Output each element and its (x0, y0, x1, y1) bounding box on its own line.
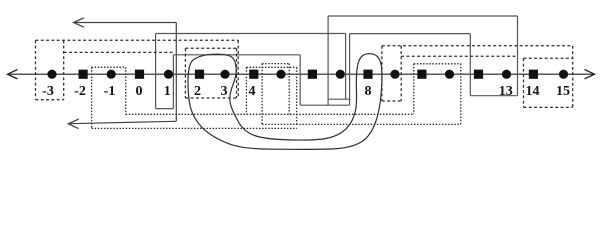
solid box T2 top edge (350, 33, 471, 35)
dashed box N23 top edge (185, 47, 236, 49)
number line (8, 73, 594, 75)
dotted long line Ldot1 (126, 113, 414, 115)
circle marker 5 (276, 70, 285, 79)
square marker 0 (135, 70, 144, 79)
svg-text:2: 2 (194, 84, 201, 99)
solid box R7 bottom edge (156, 108, 174, 110)
dashed box N-3 left edge (35, 40, 37, 100)
dashed box N9 right edge (400, 46, 402, 101)
solid box T1 left edge (327, 16, 329, 105)
square marker 12 (474, 70, 483, 79)
solid box B top edge (173, 54, 300, 56)
solid box T1 top edge (328, 15, 517, 17)
circle marker 13 (502, 70, 511, 79)
dashed box N23 bottom edge (185, 97, 236, 99)
dotted box inner45 top edge (262, 63, 289, 65)
svg-text:-2: -2 (74, 84, 86, 99)
dotted box D1 right edge (125, 67, 127, 114)
dashed box N-3 right edge (63, 40, 65, 100)
dashed box B2 top edge (64, 51, 174, 53)
dotted box D1 top edge (92, 66, 126, 68)
dashed box N1415 bottom edge (524, 106, 573, 108)
dashed box B1 right edge (237, 40, 239, 97)
top-left arrow (75, 22, 177, 24)
dotted box D1 left edge (91, 67, 93, 128)
circle marker 15 (559, 70, 568, 79)
dotted box 1011 left edge (413, 64, 415, 115)
dotted box inner45 left edge (261, 64, 263, 125)
svg-text:-1: -1 (104, 84, 116, 99)
wire vertical from top arrow down to bottom arrow (175, 23, 177, 122)
dashed boxes (36, 40, 573, 107)
svg-text:-3: -3 (42, 84, 54, 99)
solid box T1 right edge (517, 16, 519, 96)
markers (47, 70, 568, 79)
dashed box N-3 bottom edge (36, 99, 64, 101)
dotted box outer45 top edge (246, 66, 296, 68)
square marker 10 (417, 70, 426, 79)
solid box R6/R7 left edge (155, 34, 157, 109)
solid box N7 bottom edge (328, 98, 350, 100)
dotted box 1011 right edge (460, 64, 462, 125)
dashed box Db top edge (401, 55, 517, 57)
svg-text:14: 14 (526, 84, 540, 99)
svg-text:0: 0 (136, 84, 143, 99)
dashed box N9 bottom edge (382, 100, 401, 102)
number line left arrowhead (8, 70, 18, 79)
svg-text:13: 13 (499, 84, 513, 99)
square marker -2 (79, 70, 88, 79)
svg-text:8: 8 (365, 84, 372, 99)
solid box T2 right edge (469, 34, 471, 96)
dashed box N1415 top edge (524, 57, 573, 59)
solid box T2 left edge (349, 34, 351, 106)
square marker 4 (249, 70, 258, 79)
dashed box B1 top edge (36, 39, 239, 41)
number line right arrowhead (585, 70, 595, 79)
closed band curve around 2-3 and 8 (188, 54, 382, 150)
square marker 14 (529, 70, 538, 79)
dashed box N23 left edge (184, 48, 186, 98)
solid foot under 6-7 (300, 104, 349, 106)
square marker 6 (308, 70, 317, 79)
dotted boxes (92, 64, 461, 129)
dotted box outer45 left edge (245, 67, 247, 114)
circle marker 11 (445, 70, 454, 79)
dotted box 1011 top edge (414, 63, 461, 65)
svg-text:15: 15 (556, 84, 570, 99)
square marker 8 (363, 70, 372, 79)
solid box R6 right edge (345, 34, 347, 100)
svg-text:3: 3 (221, 84, 228, 99)
dashed box Da left edge (381, 46, 383, 101)
circle marker -1 (107, 70, 116, 79)
square marker 2 (195, 70, 204, 79)
dotted long bottom line Ldot2 (92, 127, 297, 129)
dashed box Da right edge (572, 46, 574, 108)
circle marker -3 (47, 70, 56, 79)
svg-text:4: 4 (249, 84, 256, 99)
circle marker 1 (164, 70, 173, 79)
svg-text:1: 1 (164, 84, 171, 99)
dashed box N1415 left edge (523, 58, 525, 107)
circle marker 9 (390, 70, 399, 79)
solid box R7 right edge (172, 55, 174, 109)
dashed box N23 right edge (236, 48, 238, 98)
solid box N13 bottom edge (470, 95, 517, 97)
dashed box Da top edge (382, 45, 573, 47)
circle marker 3 (220, 70, 229, 79)
dotted long line Ldot3 (262, 123, 461, 125)
bottom-left arrow (70, 121, 177, 123)
dotted box outer45 right edge (296, 67, 298, 124)
solid box B right edge (299, 55, 301, 105)
circle marker 7 (336, 70, 345, 79)
dotted box inner45 right edge (288, 64, 290, 115)
solid box R6 top edge (156, 33, 346, 35)
